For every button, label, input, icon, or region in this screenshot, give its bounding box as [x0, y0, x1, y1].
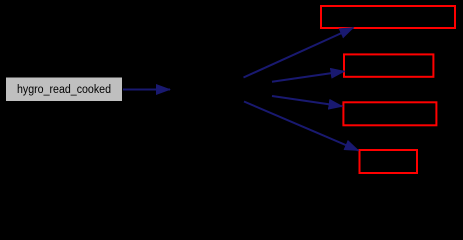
node box2 (red outline) [344, 54, 433, 76]
wire middle node to box3 [272, 96, 343, 106]
node hygro_read_cooked [6, 78, 122, 102]
node box3 (red outline) [343, 102, 436, 125]
wire middle node to box2 [272, 71, 345, 82]
node box4 (red outline) [360, 150, 418, 173]
svg-text:hygro_read_cooked: hygro_read_cooked [17, 84, 111, 96]
wire hygro_read_cooked to middle node [123, 89, 170, 91]
wire middle node to box1 [244, 28, 354, 78]
node middle (black, invisible on black background) [172, 78, 272, 101]
wire middle node to box4 [244, 102, 359, 151]
node box1 (red outline) [321, 6, 455, 28]
